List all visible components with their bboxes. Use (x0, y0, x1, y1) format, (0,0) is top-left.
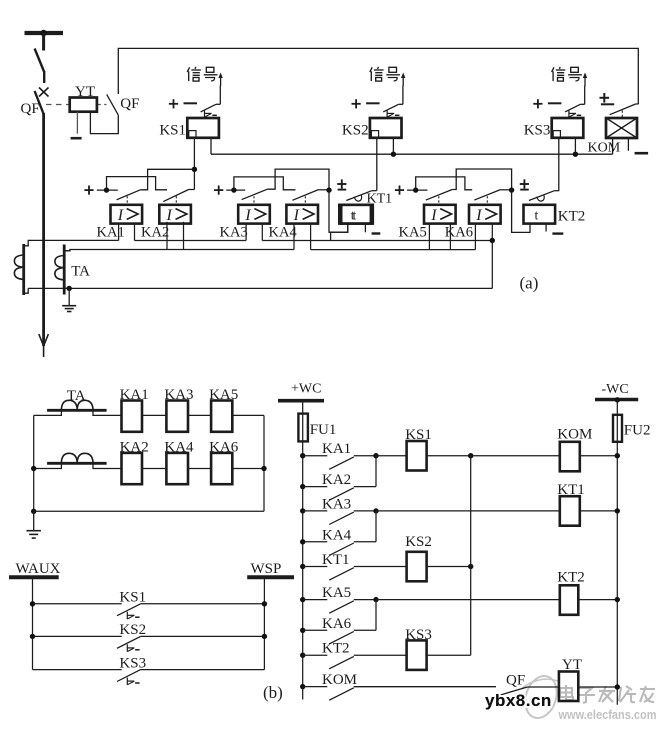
svg-text:KA2: KA2 (322, 472, 351, 488)
wire row2 KA2-KA4 (142, 468, 166, 470)
svg-text:(a): (a) (520, 274, 539, 293)
bus bar -WC (595, 398, 638, 402)
junction -WC YT rung (615, 684, 620, 689)
junction busbar-feeder (40, 30, 46, 36)
contact KT2 (b) (329, 656, 354, 668)
contact QF blade (b) (498, 687, 528, 696)
relay coil box YT (b) (559, 672, 578, 702)
ground (a) (68, 288, 70, 305)
KS3 left pin (558, 138, 560, 191)
svg-text:QF: QF (120, 96, 139, 112)
alarm relay box KOM (X) (606, 118, 637, 138)
contact blade (KOM) (610, 104, 636, 115)
left supply rail +WC (302, 401, 304, 700)
breaker QF lower slash (35, 91, 44, 114)
contact shaft wire (KS3) (584, 86, 586, 105)
svg-text:KT2: KT2 (557, 570, 585, 586)
relay coil box KA2 (I>) (159, 205, 191, 224)
wire KA5-tip riser (452, 169, 511, 190)
breaker QF upper slash (35, 49, 45, 73)
junction left rail KA2 rung (300, 484, 305, 489)
svg-text:KS3: KS3 (119, 655, 146, 671)
junction -WC KT1 rung (615, 508, 620, 513)
svg-text:QF: QF (506, 673, 525, 689)
svg-text:KA2: KA2 (141, 224, 169, 240)
svg-text:KOM: KOM (557, 427, 592, 443)
contact shaft wire (KS2) (402, 86, 404, 105)
KS1 left pin (193, 138, 195, 190)
junction left rail KS1 (30, 601, 35, 606)
plus-minus marker (KT1 contact) (337, 183, 346, 185)
wire QF-aux to top rail (118, 48, 638, 104)
collector wire KA1/KA2 (375, 456, 377, 487)
rung wire left KA3 (303, 510, 328, 512)
wire row2 KA6-right rail (233, 468, 265, 470)
contact blade (KT1) (346, 191, 372, 201)
contact KT1 (b) (329, 568, 354, 580)
KA3 right pin (261, 224, 263, 241)
right supply rail -WC (616, 400, 618, 705)
svg-text:KOM: KOM (588, 141, 621, 156)
svg-text:(b): (b) (263, 683, 283, 702)
junction KS2-common (391, 152, 396, 157)
svg-text:YT: YT (562, 657, 582, 673)
fuse FU2 (613, 415, 622, 442)
svg-text:KA1: KA1 (322, 441, 351, 457)
svg-text:KA3: KA3 (322, 496, 351, 512)
wire YT coil to -WC rail (578, 686, 617, 688)
rung wire right of contact KA5 (354, 599, 376, 601)
coil box KA5 (b) (211, 401, 232, 432)
junction CT2-return-ground (67, 286, 72, 291)
coil box KA6 (b) (211, 453, 232, 484)
YT right pin wire (90, 112, 118, 134)
minus dash (KOM) (601, 103, 614, 105)
coil box KA3 (b) (166, 401, 188, 432)
svg-text:WSP: WSP (251, 561, 282, 577)
svg-text:KS3: KS3 (405, 627, 432, 643)
feeder wire lower (42, 113, 45, 346)
junction KA3-KA4 collector (373, 508, 378, 513)
plus marker (KS2) (352, 103, 361, 105)
contact blade (KS2) (383, 104, 398, 112)
svg-text:KA3: KA3 (164, 387, 193, 403)
bus bar WAUX (9, 575, 59, 579)
rung wire right of contact KT2 (354, 654, 407, 656)
relay coil box KS2 (370, 118, 402, 138)
KA3 left pin (245, 224, 247, 241)
junction rail-row2 (31, 466, 36, 471)
svg-text:KS3: KS3 (524, 123, 551, 139)
svg-text:KS2: KS2 (342, 123, 369, 139)
junction right rail KS1 (262, 601, 267, 606)
collector wire KA5/KA6 (375, 600, 377, 631)
relay coil box KA6 (I>) (469, 205, 501, 224)
relay coil box KT2 (b) (560, 585, 579, 615)
latch flag KS1 (rung) (126, 612, 128, 619)
rung wire right of contact KA2 (354, 486, 376, 488)
KA5 left pin (428, 224, 430, 250)
wire KS1 coil to common (427, 455, 471, 457)
rung wire left KA1 (303, 455, 328, 457)
wire row1 KA1-KA3 (142, 414, 166, 416)
contact KA1 (b) (329, 457, 354, 469)
junction -WC KOM rung (615, 453, 620, 458)
svg-text:KS1: KS1 (119, 590, 146, 606)
signal arrow (KS3) (584, 75, 586, 87)
junction -WC (615, 397, 620, 402)
wire KT2 coil to -WC rail (578, 599, 617, 601)
svg-text:I: I (166, 207, 173, 224)
wire KA4.right to KA6.left (y249.6) (311, 249, 476, 251)
contact KA5 (b) (329, 601, 354, 613)
plus marker (group1) (84, 189, 93, 191)
left rail (b-left) (33, 415, 35, 511)
wire KA3 rung to KT1 coil (376, 510, 560, 512)
minus marker (KS2) (366, 102, 380, 104)
svg-text:TA: TA (71, 264, 90, 280)
junction left rail KA4 rung (300, 539, 305, 544)
left rail WAUX (32, 577, 34, 669)
junction left rail KA6 rung (300, 628, 305, 633)
junction left rail KT1 rung (300, 564, 305, 569)
contact blade KS3 (rung) (117, 670, 141, 682)
KA2 right pin (183, 222, 185, 250)
rung wire left KT2 (303, 654, 328, 656)
rung wire right of contact KA4 (354, 541, 376, 543)
KS1 right pin (210, 138, 212, 154)
wire KA1-junction to KS1 coil (376, 455, 407, 457)
KOM contact linkage dashes (621, 111, 623, 118)
junction right rail KS2 (262, 634, 267, 639)
relay coil box KS2 (b) (407, 552, 427, 582)
svg-text:t: t (535, 207, 539, 222)
right rail (b-left) (263, 415, 265, 511)
svg-text:KA5: KA5 (209, 387, 238, 403)
rung wire KS2 (WAUX-WSP) (33, 635, 122, 637)
junction left rail KA3 rung (300, 508, 305, 513)
delay hook (KT1) (354, 195, 361, 201)
KOM right pin (627, 138, 629, 151)
coil box KA2 (b) (122, 453, 143, 484)
rung wire left KA2 (303, 486, 328, 488)
wire KA2-tip to KS1 pin (189, 189, 195, 191)
feeder arrow (39, 334, 49, 346)
signal arrow (KS1) (220, 75, 222, 87)
contact KA1 blade+linkage (117, 190, 141, 200)
KA1 right pin (134, 224, 136, 241)
rung wire KS3 (WAUX-WSP) (33, 669, 122, 671)
junction return riser (490, 238, 495, 243)
rung wire right of contact KOM (354, 686, 496, 688)
junction left rail KS2 (30, 634, 35, 639)
wire KS2 coil to common (427, 566, 471, 568)
rung wire right of contact KA3 (354, 510, 376, 512)
wire KOM coil to -WC rail (580, 455, 618, 457)
junction left rail KT2 rung (300, 653, 305, 658)
svg-text:ybx8.cn: ybx8.cn (485, 691, 552, 710)
CT row2 core bar (b) (47, 462, 107, 465)
contact KA2 blade+linkage (163, 190, 188, 202)
staircase wire to KA6 stub (416, 177, 473, 190)
CT2 bottom lead (64, 287, 69, 289)
svg-text:KT2: KT2 (322, 641, 350, 657)
relay coil box KOM (b) (560, 442, 580, 472)
rung wire left KA4 (303, 541, 328, 543)
svg-text:TA: TA (67, 388, 86, 404)
junction KA1-KA2 collector (373, 453, 378, 458)
staircase wire to KA4 stub (234, 177, 296, 190)
time relay coil box KT2 (t) (524, 205, 556, 224)
KT1 coil left lead (331, 224, 348, 241)
svg-text:KA5: KA5 (399, 224, 427, 240)
contact KA6 blade+linkage (474, 190, 500, 201)
KOM left pin (612, 138, 614, 154)
contact blade KS2 (rung) (117, 636, 141, 648)
right rail WSP (263, 577, 265, 669)
plus marker (KS1) (169, 103, 178, 105)
svg-text:KA6: KA6 (209, 439, 239, 455)
KT1 right pin (364, 224, 366, 233)
svg-text:I: I (475, 207, 482, 224)
contact blade (KS3) (565, 104, 580, 112)
wire KA1.right to KA3.left (y240.5) (135, 240, 247, 242)
wire QF contact to YT coil (527, 686, 559, 688)
contact KA3 (b) (329, 512, 354, 524)
wire KT1 coil to -WC rail (580, 510, 618, 512)
relay coil box KS1 (b) (407, 441, 427, 471)
KT2 right pin (545, 224, 547, 232)
svg-text:I: I (244, 207, 251, 224)
KS3 right pin (574, 138, 576, 154)
junction KS1-KA1 line (192, 167, 197, 172)
svg-text:KA6: KA6 (445, 224, 473, 240)
current transformer TA bar2 (63, 245, 66, 295)
time relay coil box KT1 (t) (341, 205, 373, 224)
KS2 right pin (392, 138, 394, 154)
junction supply (group1) (104, 187, 109, 192)
svg-text:KA4: KA4 (164, 439, 194, 455)
contact blade KS1 (rung) (117, 604, 141, 616)
svg-text:KS2: KS2 (405, 534, 432, 550)
svg-text:I: I (293, 207, 300, 224)
contact KA2 (b) (329, 488, 354, 500)
svg-text:www.elecfans.com: www.elecfans.com (558, 707, 657, 722)
KA6 left pin (474, 224, 476, 250)
supply stub wire (group2) (226, 189, 245, 191)
busbar (top) (25, 31, 64, 35)
relay coil box KA5 (I>) (424, 205, 456, 224)
svg-text:FU1: FU1 (310, 422, 337, 438)
contact KA4 blade+linkage (292, 190, 318, 201)
wire KS-coil common line to KOM (211, 153, 613, 155)
contact blade (KT2) (529, 191, 555, 201)
junction common KS2 (468, 564, 473, 569)
svg-text:FU2: FU2 (624, 423, 651, 439)
CT1 bottom jog (24, 288, 29, 293)
svg-text:KS1: KS1 (159, 123, 186, 139)
wire CT2 to KA-row (y249.5) (64, 250, 294, 251)
wire row2 KA4-KA6 (188, 468, 211, 470)
junction left rail KA1 rung (300, 453, 305, 458)
svg-text:KA4: KA4 (269, 224, 298, 240)
latch flag (KS1) (204, 110, 206, 117)
KA2 left pin (166, 222, 168, 250)
breaker X mark (39, 88, 49, 97)
signal label 信号 (KS2) (370, 67, 372, 72)
wire junction group2 down to KT1 coil (329, 190, 348, 232)
contact KA5 blade+linkage (426, 190, 452, 201)
junction left rail KA5 rung (300, 597, 305, 602)
latch flag KS3 (rung) (126, 678, 128, 685)
supply stub wire (group1) (97, 189, 118, 191)
KT1 minus bar (372, 232, 381, 234)
junction supply (group2) (231, 187, 236, 192)
KA6 right pin (491, 224, 493, 241)
svg-text:KS2: KS2 (119, 622, 146, 638)
junction right-rail-row2 (261, 466, 266, 471)
svg-text:WAUX: WAUX (16, 561, 61, 577)
relay coil box KS1 (187, 118, 219, 138)
supply stub wire (group3) (407, 189, 428, 191)
svg-text:KA1: KA1 (120, 387, 149, 403)
trip linkage dashed left (46, 104, 70, 106)
minus marker (KS3) (548, 102, 562, 104)
wire KA5 rung to KT2 coil (376, 599, 560, 601)
KA1 left pin (118, 224, 120, 241)
junction KA5-KA6 collector (373, 597, 378, 602)
rung wire KS1 (WAUX-WSP) (33, 603, 122, 605)
signal arrow (KS2) (402, 75, 404, 87)
rung wire right of contact KA1 (354, 455, 376, 457)
junction left rail KOM rung (300, 684, 305, 689)
svg-text:-WC: -WC (602, 382, 629, 397)
signal label 信号 (KS1) (187, 67, 189, 72)
KT2 minus bar (552, 232, 563, 234)
KS2 left pin (376, 138, 378, 191)
svg-text:QF: QF (21, 101, 40, 117)
wire KS3 coil to common (427, 654, 471, 656)
KA4 left pin (293, 224, 295, 250)
junction -WC KT2 rung (615, 597, 620, 602)
plus marker (group2) (214, 189, 223, 191)
relay coil box KA1 (I>) (111, 205, 143, 224)
svg-text:KT1: KT1 (322, 552, 350, 568)
rung wire left KT1 (303, 566, 328, 568)
return wire (y288.4) (28, 287, 492, 289)
bottom return (b-left) (34, 510, 264, 512)
bus bar +WC (278, 399, 324, 403)
rung wire left KA6 (303, 629, 328, 631)
svg-text:I: I (430, 207, 437, 224)
rung wire right of contact KA6 (354, 629, 376, 631)
contact shaft wire (KS1) (219, 86, 221, 105)
svg-text:t: t (353, 207, 357, 222)
current transformer TA bar1 (22, 244, 25, 295)
contact KA4 (b) (329, 543, 354, 555)
svg-text:KA6: KA6 (322, 616, 352, 632)
svg-text:KT1: KT1 (557, 482, 585, 498)
ground (b) (33, 511, 35, 530)
svg-text:I: I (117, 207, 124, 224)
return wire riser (491, 241, 493, 289)
relay coil box KA4 (I>) (286, 205, 318, 224)
junction group2 output (326, 187, 331, 192)
wire KA1-tip riser (140, 169, 194, 190)
YT minus bar (71, 137, 82, 140)
delay hook (KT2) (537, 195, 544, 201)
aux contact QF blade (107, 94, 119, 115)
svg-text:KA5: KA5 (322, 585, 351, 601)
wire KA3-tip riser (268, 169, 329, 190)
common collector vertical (470, 456, 472, 656)
junction rail-return (31, 509, 36, 514)
junction group3 output (509, 187, 514, 192)
rung wire left KA5 (303, 599, 328, 601)
watermark swirl logo (520, 672, 562, 722)
signal label 信号 (KS3) (552, 67, 554, 72)
rung wire left KOM (303, 686, 328, 688)
contact blade (KS1) (201, 104, 216, 112)
plus marker (group3) (395, 189, 404, 191)
svg-text:KOM: KOM (322, 672, 357, 688)
wire KA6-tip to junction (501, 189, 512, 191)
CT row1 core bar (b) (47, 409, 107, 412)
junction common top (468, 453, 473, 458)
junction KS3-common (573, 152, 578, 157)
relay coil box KT1 (b) (560, 496, 580, 526)
KOM minus bar (635, 152, 649, 155)
feeder wire upper (42, 33, 45, 51)
contact KA3 blade+linkage (242, 189, 268, 200)
KA5 right pin (449, 224, 451, 250)
svg-text:KA4: KA4 (322, 527, 352, 543)
watermark 电子发烧友 (gray) (560, 685, 655, 703)
svg-text:KS1: KS1 (405, 427, 432, 443)
relay coil box KS3 (552, 118, 584, 138)
collector wire KA3/KA4 (375, 511, 377, 542)
CT2 top lead (64, 250, 70, 251)
plus marker (KS3) (533, 103, 542, 105)
relay coil box KS3 (b) (407, 640, 427, 670)
contact KOM (b) (329, 688, 354, 700)
fuse FU1 (298, 414, 308, 442)
time relay coil box KT1 (t) (339, 205, 371, 224)
KA4 right pin (310, 224, 312, 250)
YT left pin (76, 112, 78, 134)
svg-text:+WC: +WC (291, 382, 321, 397)
wire junction group3 down to KT2 coil (512, 190, 530, 232)
svg-text:KA2: KA2 (120, 439, 149, 455)
rung wire right of contact KT1 (354, 566, 407, 568)
latch flag (KS3) (568, 110, 570, 117)
latch flag (KS2) (386, 110, 388, 117)
wire row1 KA5-right rail (233, 414, 265, 416)
contact KA6 (b) (329, 632, 354, 644)
plus-minus marker (KT2 contact) (520, 183, 529, 185)
wire KA4-tip to junction (319, 189, 329, 191)
coil box KA4 (b) (166, 453, 188, 484)
CT1 top lead to KA1 (24, 240, 119, 245)
relay coil box KA3 (I>) (238, 205, 270, 224)
wire KS1 rung to KOM coil (471, 455, 560, 457)
svg-text:KA3: KA3 (220, 224, 248, 240)
coil box KA1 (b) (122, 401, 143, 432)
plus marker (KOM) (600, 97, 610, 99)
staircase wire to KA2 stub (107, 177, 168, 191)
svg-text:KA1: KA1 (97, 224, 125, 240)
svg-text:KT2: KT2 (558, 209, 586, 225)
